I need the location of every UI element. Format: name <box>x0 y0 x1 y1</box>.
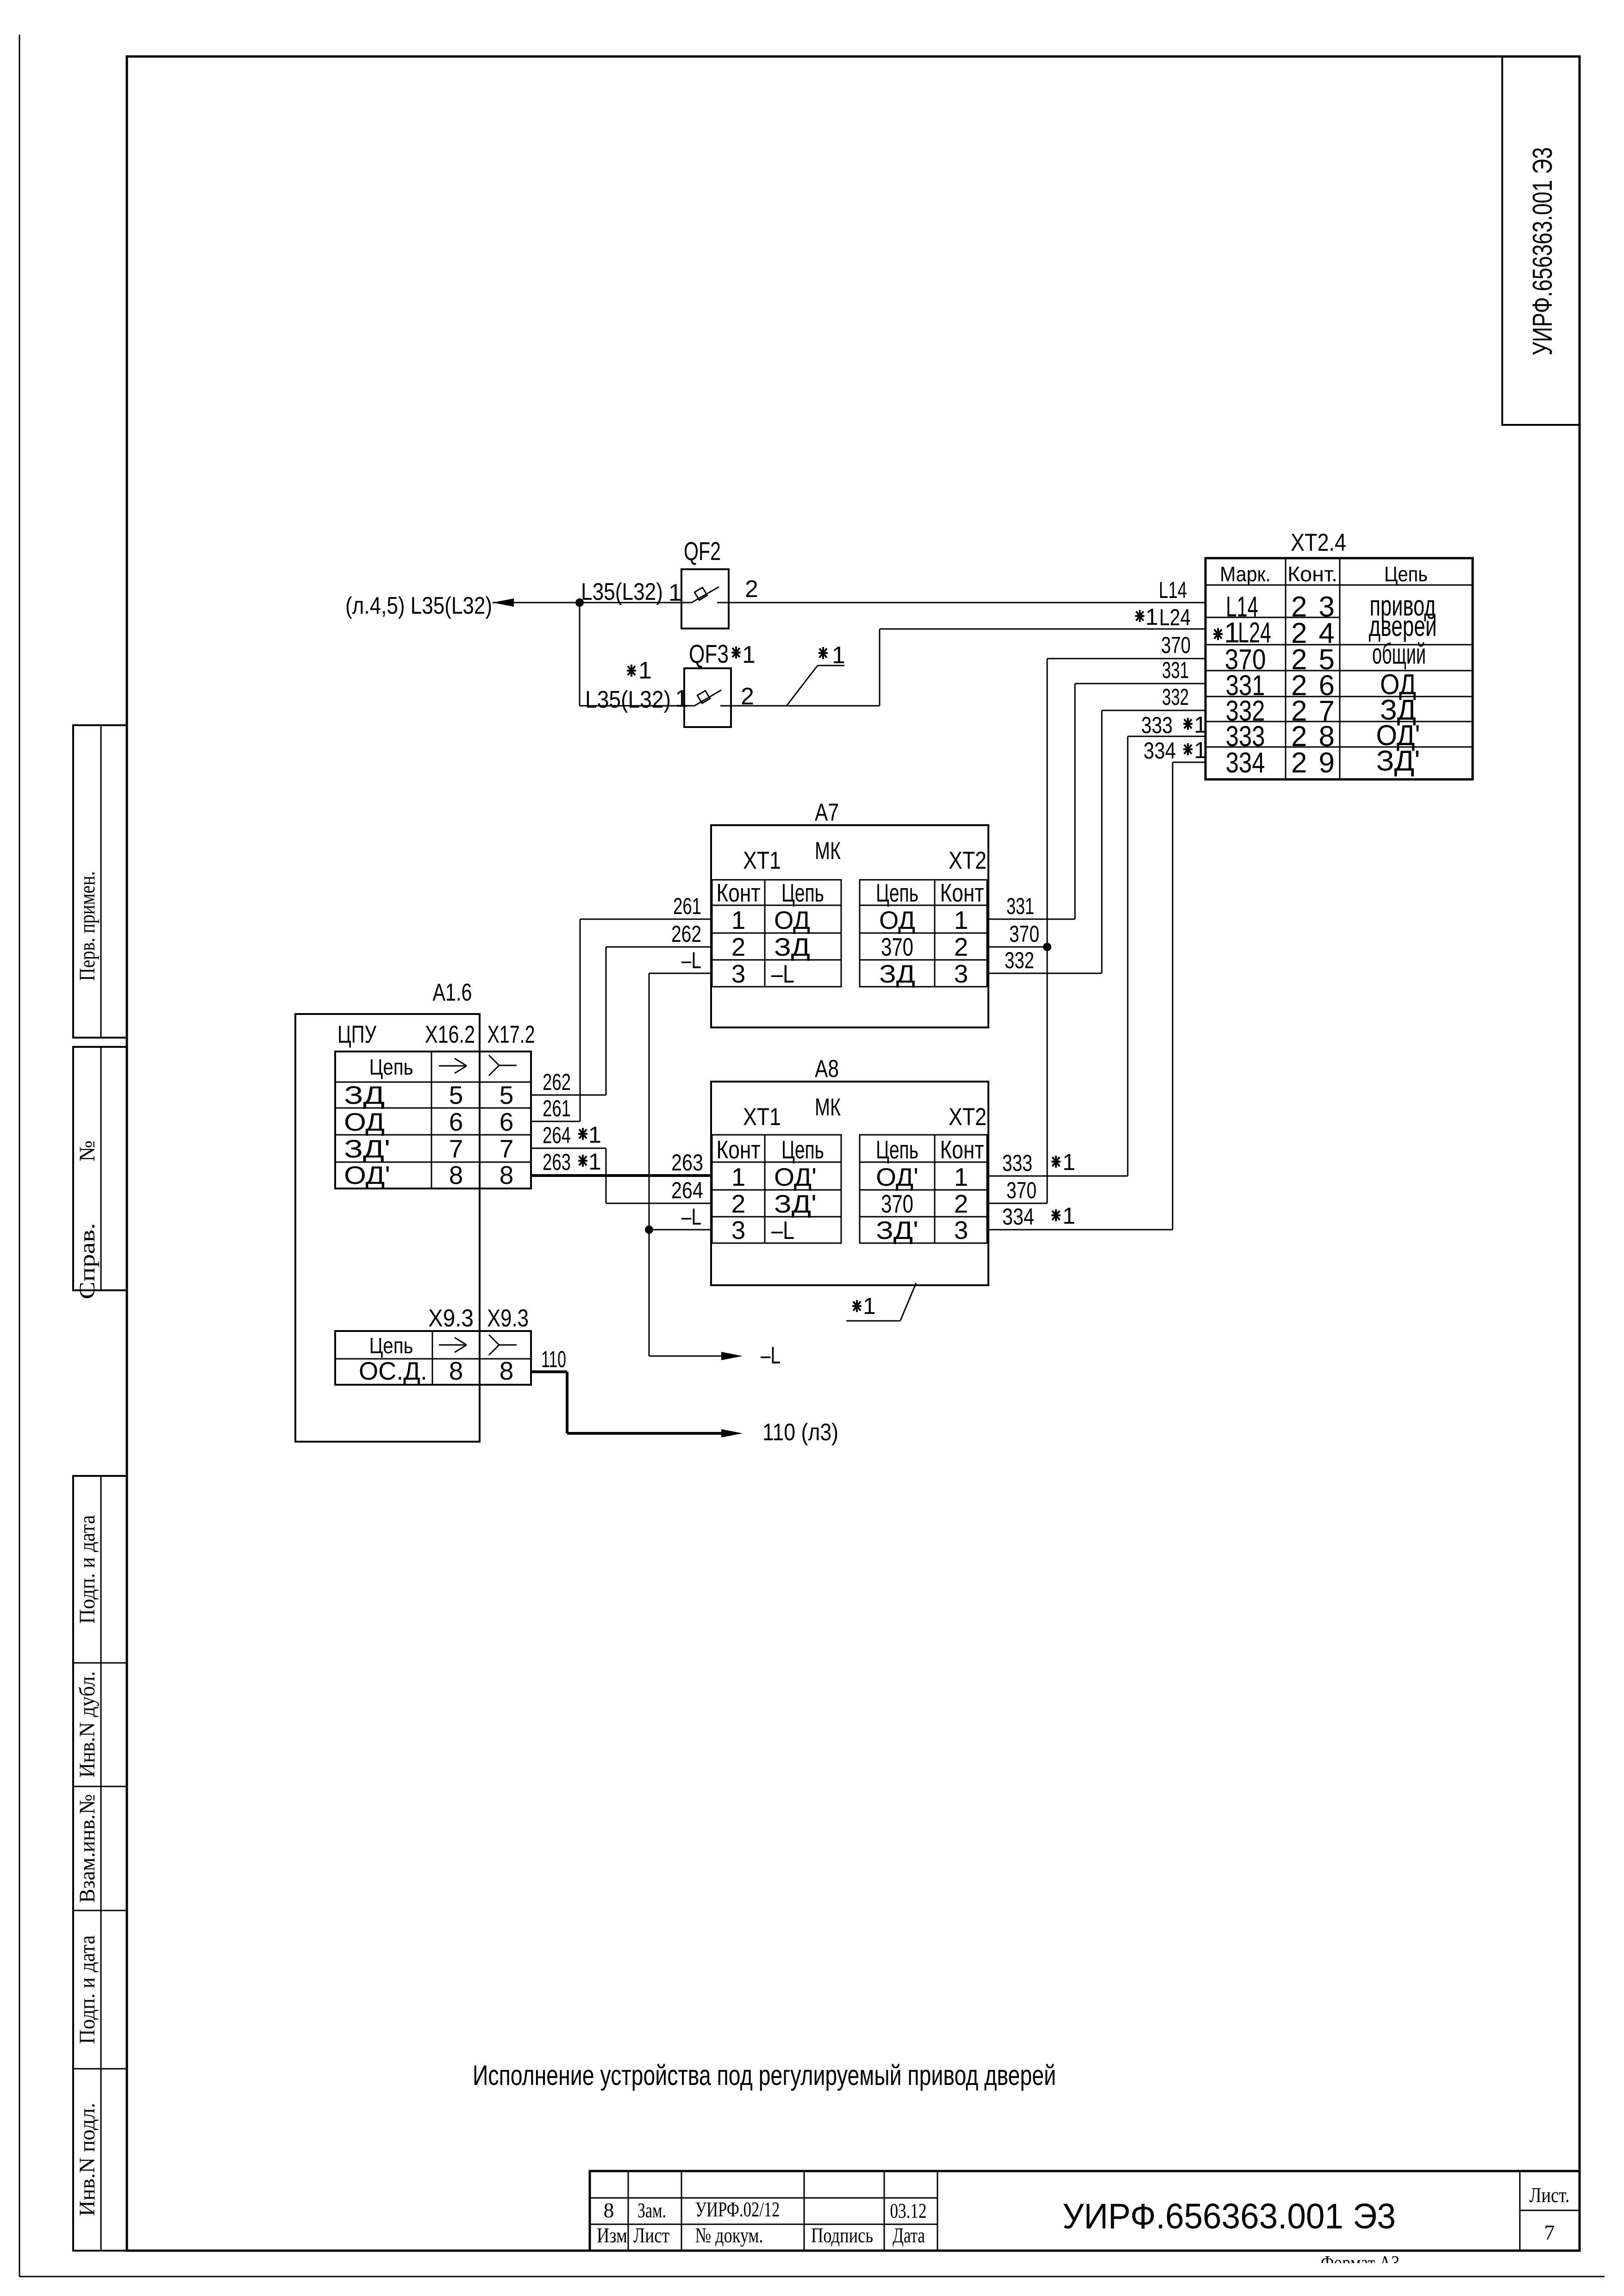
svg-text:263: 263 <box>543 1149 571 1175</box>
svg-text:1: 1 <box>1145 604 1158 630</box>
svg-text:370: 370 <box>881 1189 913 1218</box>
svg-text:Подпись: Подпись <box>811 2223 873 2247</box>
svg-text:–L: –L <box>771 959 794 988</box>
wire 262 into A7 pin2 <box>606 946 711 948</box>
A8 XT2 table <box>860 1135 987 1243</box>
sidebar box Perv primen <box>73 725 127 1038</box>
variant slash mark *1 below A8 <box>900 1283 916 1320</box>
wire 370 from A8 <box>988 1203 1047 1204</box>
svg-text:334: 334 <box>1002 1204 1034 1230</box>
svg-text:ХТ1: ХТ1 <box>743 847 781 874</box>
module A7 box <box>711 825 988 1027</box>
svg-text:Конт: Конт <box>717 1135 761 1164</box>
svg-text:А1.6: А1.6 <box>433 979 472 1006</box>
svg-text:Зам.: Зам. <box>637 2198 666 2222</box>
svg-text:264: 264 <box>671 1177 703 1203</box>
svg-text:Лист.: Лист. <box>1530 2183 1570 2207</box>
svg-text:1: 1 <box>1194 737 1207 763</box>
svg-text:общий: общий <box>1372 638 1426 670</box>
svg-text:7: 7 <box>1544 2221 1555 2244</box>
A8 XT1 table <box>712 1135 841 1243</box>
A1.6 connector table X9.3 <box>335 1331 531 1385</box>
net 334 <box>1173 762 1206 763</box>
svg-text:ОД': ОД' <box>774 1163 817 1191</box>
svg-text:Цепь: Цепь <box>781 1135 824 1164</box>
svg-text:Инв.N дубл.: Инв.N дубл. <box>75 1671 100 1778</box>
page edge bottom line <box>19 2276 1605 2277</box>
svg-text:370: 370 <box>881 933 913 961</box>
net 333 <box>1128 736 1206 737</box>
svg-text:А7: А7 <box>815 799 839 826</box>
svg-text:6: 6 <box>500 1108 514 1136</box>
sidebar box Sprav No <box>73 1047 127 1290</box>
svg-text:110 (л3): 110 (л3) <box>762 1419 838 1446</box>
svg-text:332: 332 <box>1005 947 1034 973</box>
svg-text:332: 332 <box>1162 684 1189 710</box>
svg-text:262: 262 <box>671 921 701 947</box>
svg-text:3: 3 <box>731 959 746 988</box>
svg-text:Цепь: Цепь <box>876 878 918 907</box>
svg-text:Х17.2: Х17.2 <box>487 1021 535 1048</box>
wire 331 from A7 <box>988 919 1075 920</box>
svg-text:ЦПУ: ЦПУ <box>337 1021 376 1048</box>
svg-text:03.12: 03.12 <box>890 2199 927 2222</box>
node junction -L <box>645 1226 653 1234</box>
svg-text:5: 5 <box>500 1081 514 1109</box>
svg-text:–L: –L <box>771 1216 794 1244</box>
svg-text:L24: L24 <box>1159 604 1191 630</box>
Format A3 clipped <box>1321 2252 1399 2274</box>
svg-text:МК: МК <box>815 837 841 865</box>
doc number box top right <box>1502 56 1580 425</box>
svg-text:3: 3 <box>731 1216 746 1244</box>
svg-text:Подп. и дата: Подп. и дата <box>75 1935 100 2044</box>
svg-text:QF3: QF3 <box>689 639 729 668</box>
net 331 <box>1075 683 1206 684</box>
title block outer <box>590 2171 1580 2251</box>
svg-text:ЗД': ЗД' <box>1376 745 1420 777</box>
svg-text:Перв. примен.: Перв. примен. <box>75 871 100 981</box>
svg-text:1: 1 <box>731 906 746 934</box>
svg-text:Конт: Конт <box>940 878 984 907</box>
svg-text:334: 334 <box>1226 747 1265 779</box>
svg-text:Конт: Конт <box>717 878 761 907</box>
svg-text:Х9.3: Х9.3 <box>428 1305 474 1332</box>
wire 263 thick into A8 pin1 <box>531 1174 711 1177</box>
svg-text:370: 370 <box>1009 921 1039 947</box>
svg-text:ОД: ОД <box>774 906 810 934</box>
svg-text:Конт: Конт <box>940 1135 984 1164</box>
svg-text:5: 5 <box>449 1081 463 1109</box>
svg-text:ЗД': ЗД' <box>876 1216 918 1244</box>
svg-text:333: 333 <box>1141 712 1173 738</box>
svg-text:–L: –L <box>681 1204 701 1230</box>
svg-text:1: 1 <box>731 1163 746 1191</box>
svg-text:8: 8 <box>449 1356 463 1385</box>
svg-text:ХТ2: ХТ2 <box>949 1103 987 1131</box>
svg-text:1: 1 <box>742 641 756 668</box>
svg-text:L35(L32): L35(L32) <box>581 579 663 605</box>
svg-text:262: 262 <box>543 1069 571 1095</box>
svg-text:№ докум.: № докум. <box>695 2223 763 2247</box>
wire 332 from A7 <box>988 973 1102 974</box>
net 370 vertical <box>1047 658 1206 660</box>
breaker QF2 box <box>681 569 729 628</box>
svg-text:2: 2 <box>731 933 746 961</box>
svg-text:3: 3 <box>954 959 968 988</box>
wire 261 A1.6 to A7 <box>531 1121 580 1122</box>
svg-text:1: 1 <box>832 642 845 669</box>
module A1.6 box <box>295 1014 480 1442</box>
svg-text:ХТ1: ХТ1 <box>743 1103 781 1131</box>
svg-text:Конт.: Конт. <box>1287 562 1337 586</box>
svg-text:2: 2 <box>954 933 968 961</box>
svg-text:дверей: дверей <box>1369 610 1437 642</box>
svg-text:110: 110 <box>541 1346 566 1372</box>
svg-text:Дата: Дата <box>893 2223 925 2247</box>
svg-text:1: 1 <box>588 1122 601 1148</box>
svg-text:7: 7 <box>500 1134 514 1163</box>
svg-text:ХТ2.4: ХТ2.4 <box>1291 529 1346 556</box>
svg-text:ОД': ОД' <box>876 1163 918 1191</box>
svg-text:QF2: QF2 <box>684 536 721 566</box>
svg-text:Х16.2: Х16.2 <box>425 1021 475 1048</box>
svg-text:264: 264 <box>543 1122 571 1148</box>
wire L35(L32) main with left arrow <box>493 598 514 607</box>
breaker QF3 contact lever <box>694 690 721 706</box>
svg-text:Подп. и дата: Подп. и дата <box>75 1515 100 1624</box>
svg-text:1: 1 <box>668 579 682 606</box>
wire QF2 to XT2.4 pin 23 <box>717 602 1206 604</box>
label *1 above L35 QF3 <box>627 665 636 677</box>
A7 XT2 table <box>860 880 987 987</box>
svg-text:261: 261 <box>673 893 701 919</box>
svg-text:УИРФ.656363.001 Э3: УИРФ.656363.001 Э3 <box>1527 147 1558 355</box>
svg-text:331: 331 <box>1006 893 1034 919</box>
A7 XT1 table <box>712 880 841 987</box>
svg-text:8: 8 <box>604 2198 614 2222</box>
wire -L to arrow <box>649 1356 722 1357</box>
svg-text:261: 261 <box>543 1095 571 1121</box>
svg-text:ХТ2: ХТ2 <box>949 847 987 874</box>
module A8 box <box>711 1082 988 1285</box>
svg-text:1: 1 <box>638 657 652 684</box>
svg-text:ЗД: ЗД <box>774 933 810 961</box>
svg-text:1: 1 <box>954 906 968 934</box>
net -L vertical <box>649 973 650 1356</box>
svg-text:УИРФ.656363.001 Э3: УИРФ.656363.001 Э3 <box>1062 2196 1396 2236</box>
wire -L into A7 pin3 <box>649 973 711 974</box>
svg-text:370: 370 <box>1006 1177 1037 1203</box>
svg-text:8: 8 <box>449 1161 463 1189</box>
svg-text:8: 8 <box>500 1356 514 1385</box>
wire -L into A8 pin3 <box>649 1229 711 1231</box>
svg-text:1: 1 <box>1194 712 1207 738</box>
terminal block XT2.4 table <box>1206 558 1473 779</box>
svg-text:333: 333 <box>1002 1150 1032 1176</box>
svg-text:Цепь: Цепь <box>369 1055 413 1080</box>
sidebar box lower <box>73 1476 127 2251</box>
svg-text:Цепь: Цепь <box>369 1334 413 1358</box>
breaker QF3 box <box>684 668 731 727</box>
svg-text:1: 1 <box>1062 1203 1075 1229</box>
svg-text:Справ.: Справ. <box>75 1223 100 1300</box>
pin-out arrow symbol X9.3 <box>439 1344 467 1346</box>
wire branch to QF3 <box>579 603 581 706</box>
svg-text:Взам.инв.№: Взам.инв.№ <box>75 1794 100 1903</box>
wire 370 from A7 <box>988 946 1047 948</box>
svg-text:L14: L14 <box>1159 577 1187 603</box>
svg-text:370: 370 <box>1161 632 1191 658</box>
wire 264 into A8 pin2 <box>606 1203 711 1204</box>
svg-text:–L: –L <box>681 947 701 973</box>
svg-text:2: 2 <box>954 1189 968 1218</box>
svg-text:№: № <box>75 1140 100 1162</box>
svg-text:7: 7 <box>449 1134 463 1163</box>
socket symbol X9.3 <box>489 1335 499 1345</box>
svg-text:ОД: ОД <box>879 906 915 934</box>
net 332 <box>1102 710 1206 711</box>
wire 262 A1.6 to A7 <box>531 1095 606 1096</box>
svg-text:Марк.: Марк. <box>1220 562 1271 586</box>
wire 264 A1.6 to A8 <box>531 1148 606 1149</box>
svg-text:6: 6 <box>449 1108 463 1136</box>
svg-text:Цепь: Цепь <box>1384 562 1428 586</box>
wire 110 thick <box>531 1370 567 1373</box>
svg-text:334: 334 <box>1143 738 1176 764</box>
title block horizontals <box>590 2197 937 2199</box>
wire 261 into A7 pin1 <box>580 919 711 920</box>
wire 334 from A8 <box>988 1229 1173 1231</box>
wire QF3 to XT2.4 pin 24 <box>720 705 880 707</box>
node junction 370 <box>1043 943 1051 951</box>
svg-text:Х9.3: Х9.3 <box>487 1305 529 1332</box>
svg-text:1: 1 <box>1062 1149 1075 1175</box>
svg-text:1: 1 <box>588 1149 601 1175</box>
node junction L35 <box>575 598 584 607</box>
svg-text:ОД: ОД <box>344 1108 385 1136</box>
svg-text:УИРФ.02/12: УИРФ.02/12 <box>695 2197 780 2221</box>
svg-text:263: 263 <box>671 1150 703 1176</box>
svg-text:ЗД: ЗД <box>344 1081 385 1109</box>
svg-text:Цепь: Цепь <box>876 1135 918 1164</box>
svg-text:331: 331 <box>1162 657 1189 683</box>
wire label *1 L24 <box>1135 610 1144 622</box>
svg-text:2: 2 <box>745 576 758 603</box>
svg-text:Инв.N подл.: Инв.N подл. <box>75 2103 100 2216</box>
svg-text:МК: МК <box>815 1094 841 1121</box>
svg-text:ОС.Д.: ОС.Д. <box>359 1356 427 1385</box>
XT2.4 row 24 <box>1213 628 1223 640</box>
svg-text:L35(L32): L35(L32) <box>585 686 671 713</box>
svg-text:Изм: Изм <box>597 2223 627 2247</box>
svg-text:ЗД': ЗД' <box>774 1189 817 1218</box>
svg-text:Цепь: Цепь <box>781 878 824 907</box>
svg-text:2: 2 <box>731 1189 746 1218</box>
svg-text:1: 1 <box>675 685 688 712</box>
svg-text:Исполнение устройства под регу: Исполнение устройства под регулируемый п… <box>473 2060 1056 2091</box>
svg-text:А8: А8 <box>815 1055 839 1083</box>
svg-text:(л.4,5) L35(L32): (л.4,5) L35(L32) <box>345 592 492 619</box>
title block verticals <box>628 2171 629 2251</box>
svg-text:1: 1 <box>954 1163 968 1191</box>
svg-text:3: 3 <box>954 1216 968 1244</box>
svg-text:–L: –L <box>761 1342 781 1369</box>
wire 333 from A8 <box>988 1176 1128 1177</box>
A1.6 connector table X16.2/X17.2 <box>335 1052 531 1188</box>
svg-text:ЗД': ЗД' <box>344 1134 390 1163</box>
svg-text:8: 8 <box>500 1161 514 1189</box>
svg-text:ЗД: ЗД <box>879 959 915 988</box>
variant slash mark *1 on QF3 wire <box>787 666 818 706</box>
svg-text:ОД': ОД' <box>344 1161 390 1189</box>
svg-text:Лист: Лист <box>633 2223 669 2247</box>
page edge left line <box>19 35 20 2277</box>
socket symbol X17.2 <box>489 1055 499 1065</box>
svg-text:1: 1 <box>863 1293 876 1319</box>
breaker QF2 contact lever <box>692 587 719 603</box>
pin-out arrow symbol X16.2 <box>439 1065 467 1067</box>
